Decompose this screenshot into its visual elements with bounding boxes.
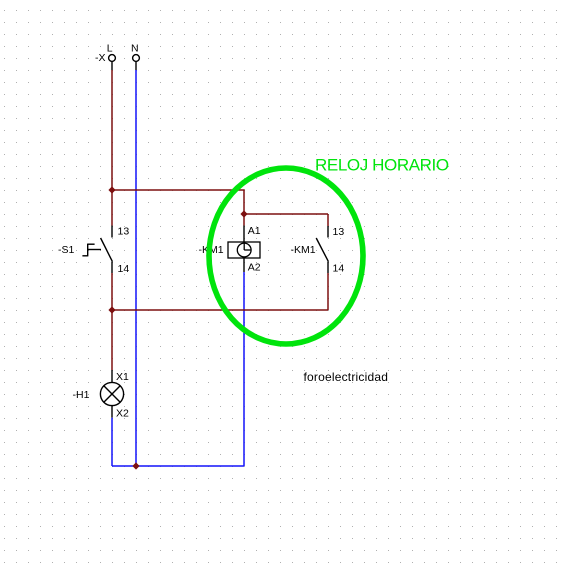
wire L between S1 and H1 (x=112) (111, 273, 113, 370)
node junction L / feed branch (108, 186, 115, 193)
switch -S1 (latching pushbutton, NO contact 13-14) (82, 226, 112, 274)
svg-text:L: L (107, 43, 113, 55)
svg-text:-X: -X (95, 52, 106, 64)
svg-text:foroelectricidad: foroelectricidad (304, 370, 389, 384)
coil -KM1 (time-clock relay, A1-A2) (228, 242, 260, 258)
terminal -X phase L (109, 55, 116, 70)
annotation green ellipse RELOJ HORARIO (209, 168, 363, 344)
svg-text:-KM1: -KM1 (291, 244, 316, 256)
node junction coil branch (240, 210, 247, 217)
svg-text:13: 13 (118, 226, 130, 238)
svg-text:-H1: -H1 (73, 389, 90, 401)
wire L vertical top (phase, x=112) (111, 70, 113, 226)
svg-text:13: 13 (333, 226, 345, 238)
node junction L / holding-contact return (108, 306, 115, 313)
svg-text:-S1: -S1 (58, 244, 75, 256)
svg-text:X1: X1 (116, 371, 129, 383)
wire feed horizontal y=214 to contact KM1 (244, 213, 328, 215)
svg-text:N: N (131, 43, 139, 55)
svg-text:14: 14 (333, 263, 345, 275)
svg-text:A2: A2 (248, 262, 261, 274)
wire holding-contact return y=310 (112, 309, 328, 311)
wire lamp to bottom neutral (blue) (111, 418, 113, 466)
wire N vertical (neutral, x=136) (135, 70, 137, 466)
wire feed horizontal y=190 (112, 190, 244, 214)
contact -KM1 (holding contact 13-14) (316, 214, 328, 310)
wire A2 pin black (243, 258, 245, 272)
svg-text:A1: A1 (248, 225, 261, 237)
wire coil branch down to A1 (243, 214, 245, 242)
svg-text:14: 14 (118, 263, 130, 275)
svg-text:RELOJ HORARIO: RELOJ HORARIO (315, 156, 449, 175)
wire A2 to neutral bottom (blue) (243, 272, 245, 466)
lamp -H1 (X1-X2) (100, 370, 123, 418)
terminal -X neutral N (133, 55, 140, 70)
node junction N / bottom wire (132, 462, 139, 469)
svg-text:X2: X2 (116, 407, 129, 419)
wire bottom neutral horizontal y=466 (112, 465, 244, 467)
